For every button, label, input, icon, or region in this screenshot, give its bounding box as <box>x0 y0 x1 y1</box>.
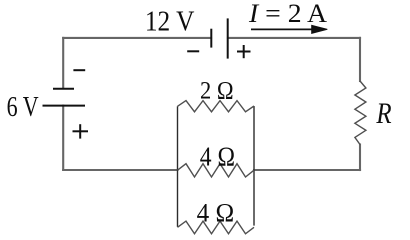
svg-text:2 Ω: 2 Ω <box>200 77 234 104</box>
svg-text:12 V: 12 V <box>145 6 195 37</box>
svg-text:4 Ω: 4 Ω <box>200 141 235 171</box>
svg-text:I = 2 A: I = 2 A <box>248 0 327 28</box>
svg-text:R: R <box>376 97 392 130</box>
svg-text:4 Ω: 4 Ω <box>197 198 235 227</box>
svg-text:6 V: 6 V <box>7 92 39 123</box>
